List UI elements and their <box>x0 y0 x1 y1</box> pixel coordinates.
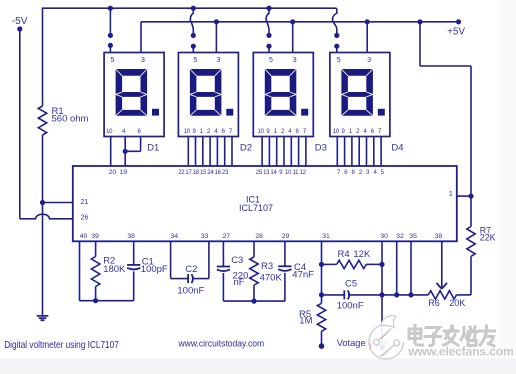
svg-text:11: 11 <box>293 170 300 176</box>
svg-text:33: 33 <box>201 233 209 240</box>
svg-text:100nF: 100nF <box>337 301 364 312</box>
svg-text:38: 38 <box>127 233 135 240</box>
svg-text:470K: 470K <box>260 273 283 284</box>
svg-text:39: 39 <box>91 233 99 240</box>
svg-text:13: 13 <box>263 170 270 176</box>
svg-text:14: 14 <box>270 170 277 176</box>
svg-text:nF: nF <box>234 277 245 288</box>
svg-text:30: 30 <box>380 233 388 240</box>
svg-text:ICL7107: ICL7107 <box>239 203 273 213</box>
svg-text:-5V: -5V <box>12 16 28 27</box>
svg-text:10: 10 <box>333 129 340 135</box>
svg-text:560 ohm: 560 ohm <box>52 113 89 124</box>
svg-text:47nF: 47nF <box>292 269 314 280</box>
svg-text:20: 20 <box>109 169 117 176</box>
svg-text:C2: C2 <box>185 264 197 275</box>
svg-text:1M: 1M <box>299 316 312 327</box>
svg-text:18: 18 <box>193 170 200 176</box>
svg-text:17: 17 <box>185 170 192 176</box>
svg-text:3: 3 <box>216 57 220 64</box>
svg-text:38: 38 <box>435 233 443 240</box>
svg-text:5: 5 <box>337 57 341 64</box>
svg-text:1: 1 <box>449 191 453 198</box>
svg-text:20K: 20K <box>449 298 465 308</box>
svg-text:28: 28 <box>255 233 263 240</box>
svg-text:R4: R4 <box>338 249 350 260</box>
svg-text:24: 24 <box>207 170 214 176</box>
svg-text:22: 22 <box>178 170 185 176</box>
svg-text:100nF: 100nF <box>177 286 204 297</box>
svg-text:R3: R3 <box>261 261 273 272</box>
svg-text:26: 26 <box>81 215 89 222</box>
svg-text:3: 3 <box>367 57 371 64</box>
svg-text:32: 32 <box>396 233 404 240</box>
svg-text:Digital voltmeter using ICL710: Digital voltmeter using ICL7107 <box>4 339 119 350</box>
svg-text:34: 34 <box>171 233 179 240</box>
svg-text:D3: D3 <box>315 143 327 154</box>
svg-text:180K: 180K <box>103 264 126 275</box>
svg-text:+5V: +5V <box>447 26 465 37</box>
svg-text:5: 5 <box>193 57 197 64</box>
svg-text:23: 23 <box>222 170 229 176</box>
svg-text:25: 25 <box>256 170 263 176</box>
svg-text:5: 5 <box>269 57 273 64</box>
svg-text:3: 3 <box>141 57 145 64</box>
svg-text:3: 3 <box>293 57 297 64</box>
svg-text:31: 31 <box>322 233 330 240</box>
svg-text:R6: R6 <box>428 298 440 308</box>
svg-text:12: 12 <box>300 170 307 176</box>
svg-text:10: 10 <box>106 129 113 135</box>
svg-text:D1: D1 <box>147 143 159 154</box>
svg-text:C5: C5 <box>345 279 357 290</box>
svg-text:27: 27 <box>223 233 231 240</box>
svg-text:29: 29 <box>282 233 290 240</box>
svg-text:16: 16 <box>215 170 222 176</box>
svg-text:40: 40 <box>80 233 88 240</box>
svg-text:19: 19 <box>120 169 128 176</box>
svg-text:C3: C3 <box>231 255 243 266</box>
svg-text:www.elecfans.com: www.elecfans.com <box>407 345 514 359</box>
svg-text:www.circuitstoday.com: www.circuitstoday.com <box>178 338 265 349</box>
svg-text:21: 21 <box>81 199 89 206</box>
svg-text:10: 10 <box>285 170 292 176</box>
svg-text:15: 15 <box>200 170 207 176</box>
svg-text:12K: 12K <box>353 249 371 260</box>
svg-text:100pF: 100pF <box>141 264 168 275</box>
svg-text:5: 5 <box>110 57 114 64</box>
svg-text:D2: D2 <box>240 143 252 154</box>
svg-text:22K: 22K <box>480 233 496 243</box>
svg-text:D4: D4 <box>391 143 403 154</box>
svg-text:10: 10 <box>258 129 265 135</box>
svg-text:35: 35 <box>409 233 417 240</box>
svg-text:10: 10 <box>184 129 191 135</box>
